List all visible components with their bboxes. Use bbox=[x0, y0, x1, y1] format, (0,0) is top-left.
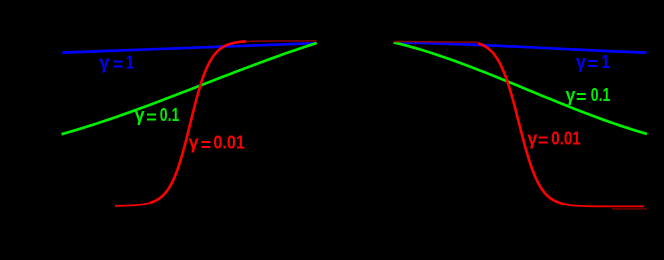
right panel: red curve gamma=0.01 steep sigmoid drop bbox=[478, 43, 564, 204]
svg-text:γ=1: γ=1 bbox=[576, 52, 610, 74]
left panel: red curve top plateau (thin dark red) bbox=[246, 40, 317, 43]
left panel: green curve gamma=0.1 bbox=[62, 43, 317, 134]
right panel: red curve faint bottom second tail (dark red) bbox=[612, 208, 647, 210]
svg-text:γ=0.01: γ=0.01 bbox=[527, 128, 580, 150]
svg-text:γ=0.01: γ=0.01 bbox=[189, 133, 245, 155]
right panel: red curve gamma=0.01 flat bottom tail (thin) bbox=[560, 203, 644, 206]
left panel: blue curve gamma=1 bbox=[62, 43, 314, 52]
right panel: blue curve gamma=1 bbox=[394, 42, 647, 52]
right panel: green curve gamma=0.1 bbox=[394, 42, 647, 134]
left panel: red curve gamma=0.01 flat bottom start (thin) bbox=[115, 203, 151, 206]
left panel: red curve gamma=0.01 steep sigmoid rise bbox=[150, 41, 246, 203]
svg-text:γ=1: γ=1 bbox=[99, 52, 133, 74]
right panel: red curve top plateau (thin dark red) bbox=[394, 41, 479, 44]
